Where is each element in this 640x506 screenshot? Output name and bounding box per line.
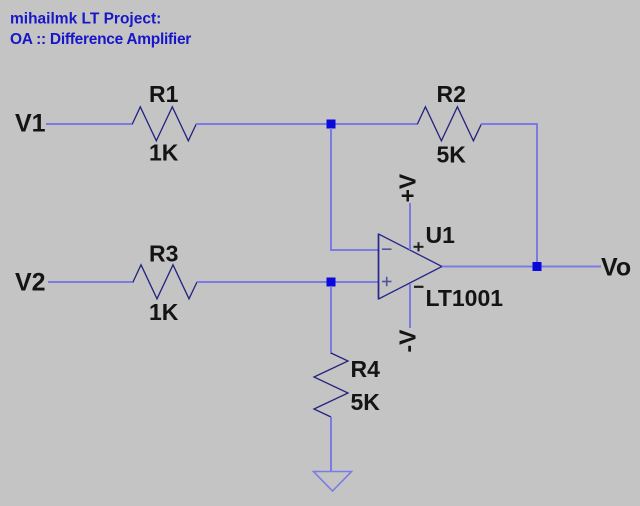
svg-text:V2: V2 bbox=[15, 269, 46, 297]
resistor R4 bbox=[314, 353, 348, 417]
wire -V stub bbox=[409, 284, 411, 328]
inverting input marker bbox=[382, 248, 392, 250]
svg-text:1K: 1K bbox=[149, 299, 179, 325]
output node junction bbox=[533, 262, 542, 271]
wire R1 to R2 through node A bbox=[196, 123, 418, 125]
wire V1 to R1 bbox=[46, 123, 133, 125]
svg-text:OA :: Difference Amplifier: OA :: Difference Amplifier bbox=[10, 31, 191, 48]
svg-text:5K: 5K bbox=[437, 142, 467, 168]
ground bbox=[314, 472, 352, 492]
wire R4 to ground bbox=[330, 417, 332, 471]
wire node B down to R4 bbox=[330, 286, 332, 354]
resistor R1 bbox=[132, 107, 196, 141]
svg-text:R2: R2 bbox=[437, 81, 466, 107]
op-amp U1 triangle bbox=[379, 234, 443, 299]
wire R2 to corner bbox=[481, 123, 537, 125]
node B junction bbox=[327, 278, 336, 287]
resistor R3 bbox=[133, 265, 197, 299]
V- power pin marker bbox=[414, 286, 424, 288]
node A junction bbox=[327, 120, 336, 129]
resistor R2 bbox=[417, 107, 481, 141]
wire node A down bbox=[330, 128, 332, 250]
output wire bbox=[442, 266, 601, 268]
svg-text:-V: -V bbox=[395, 329, 421, 353]
svg-text:5K: 5K bbox=[351, 389, 381, 415]
svg-text:U1: U1 bbox=[426, 222, 456, 248]
wire R3 to noninverting input through node B bbox=[197, 281, 378, 283]
svg-text:Vo: Vo bbox=[601, 254, 631, 282]
svg-text:mihailmk LT Project:: mihailmk LT Project: bbox=[10, 11, 161, 28]
wire +V stub bbox=[409, 203, 411, 250]
svg-text:V1: V1 bbox=[15, 110, 46, 138]
svg-text:1K: 1K bbox=[149, 140, 179, 166]
svg-text:R1: R1 bbox=[149, 81, 179, 107]
svg-text:R3: R3 bbox=[149, 241, 178, 267]
wire V2 to R3 bbox=[48, 281, 134, 283]
wire corner down to output node bbox=[536, 123, 538, 267]
noninverting input marker bbox=[382, 277, 392, 286]
svg-text:R4: R4 bbox=[351, 356, 381, 382]
svg-text:LT1001: LT1001 bbox=[426, 285, 504, 311]
wire jog to inverting input bbox=[330, 249, 378, 251]
V+ power pin marker bbox=[414, 242, 424, 251]
svg-text:+V: +V bbox=[395, 173, 421, 202]
